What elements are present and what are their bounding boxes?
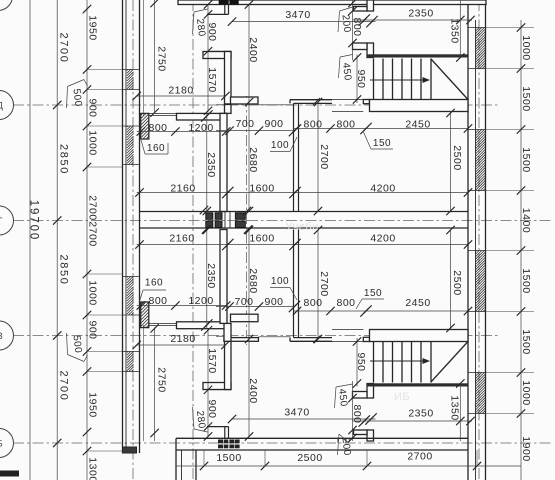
svg-text:950: 950 [355,69,367,88]
svg-text:2160: 2160 [170,183,195,195]
svg-text:В: В [0,331,3,341]
svg-text:1000: 1000 [86,130,98,155]
svg-text:1500: 1500 [520,329,532,354]
svg-text:1500: 1500 [520,86,532,111]
svg-text:2850: 2850 [58,144,70,175]
mirror thin line under vent wall [216,335,231,337]
wall B thin partition x293.5-298.5 [293,103,295,211]
svg-text:900: 900 [86,98,98,117]
left wall window hatch W2m [127,277,134,316]
left wall window hatch W1 [127,70,134,90]
central piers group1 2x2 [206,213,213,220]
svg-text:900: 900 [206,399,218,418]
dim 2400/2680 bottom x=249 [248,230,250,437]
svg-text:ИБ: ИБ [394,391,410,403]
svg-text:1000: 1000 [520,380,532,405]
witness x=143 top [142,0,144,116]
svg-text:2700: 2700 [318,144,330,169]
svg-text:Г: Г [0,216,3,226]
svg-text:3470: 3470 [284,407,309,419]
dim 900/1570 bottom x=208 [207,329,209,437]
svg-text:1500: 1500 [216,452,241,464]
dim 2350 landing y=20 [353,19,473,21]
svg-text:900: 900 [264,296,283,308]
svg-text:160: 160 [145,278,163,289]
svg-text:160: 160 [147,143,165,154]
svg-text:2350: 2350 [408,408,433,420]
svg-text:2750: 2750 [155,367,167,392]
bottom left corner wall going down [175,438,177,480]
right outer wall [467,0,469,480]
svg-text:1500: 1500 [520,147,532,172]
L wall x 203-231 y 51.5-58.5 [203,52,231,59]
central band walls y211.5-228 [140,211,469,213]
landing divider wall y54.5-57.5 [367,54,468,57]
svg-text:2180: 2180 [168,85,193,97]
dim 3470 top y=21.6 [232,21,376,23]
axis circle top partial [0,0,13,11]
axis col V4 x=479 in right wall [478,0,480,480]
top wall shaft blocks black [219,0,229,5]
svg-text:800: 800 [336,297,355,309]
dim 200/800 stair left bottom [352,381,354,441]
black bar bottom-left [0,471,19,477]
dim 2750 line x=154.6 top [154,0,156,114]
stair wall stub B [353,43,368,50]
mirror wall stub [141,302,149,328]
mirror landing divider [367,383,468,386]
mirror jog wall A to band [224,323,231,341]
band wall mid piece x230.5-258 [231,97,259,104]
mirror band thick segment x224-258.4 [224,338,258,342]
svg-text:1200: 1200 [188,295,213,307]
small pier 150 left of stair wall [363,100,369,104]
dim 1350 landing bottom [459,384,461,442]
mirror stair wall stub A [354,430,368,435]
wall A x220-227 [220,113,227,211]
svg-text:1570: 1570 [206,348,218,373]
svg-text:Д: Д [0,101,3,111]
door jamb line y=51.5 room1-room2 [209,51,231,53]
svg-text:2680: 2680 [247,268,259,293]
axis circle y=220.5 [0,206,14,235]
mirror wall x224.5 y337-389.5 [225,337,232,390]
niche line y=14.4 [207,13,229,15]
bottom wall shaft blocks [218,440,223,444]
stair left wall upper piece [367,0,374,11]
mirror stair treads [382,342,384,383]
dim 2500 bottom x=450.5 [450,230,452,330]
top chain y=131.5 left [137,131,227,133]
dim 2350 bottom x=206.8 [206,230,208,328]
svg-text:2400: 2400 [247,37,259,62]
dim line inner chain x=87 [86,0,88,480]
dim 2350 landing bottom y=421 [353,420,473,422]
dim 2180 bottom [137,344,226,346]
svg-text:280: 280 [194,410,207,429]
axis row y=335.5 [13,335,500,337]
svg-text:100: 100 [271,276,289,287]
svg-text:1600: 1600 [249,183,274,195]
band wall right part: wall B corner to stair [290,99,332,101]
left outer wall [122,0,124,453]
mirror: vent pipe bottom [224,427,226,439]
dim 2350 line x=206.8 [206,113,208,211]
bottom chain y=466 [176,465,521,467]
dim 280/900/1570 line x=208 top [207,5,209,113]
svg-text:150: 150 [373,138,391,149]
top chain y=128.5 right 800/800/2450 [294,128,468,130]
stair wall stub A [354,7,368,12]
dim 1350 landing x=460.3 [459,0,461,58]
svg-text:2700: 2700 [86,195,98,220]
svg-text:1400: 1400 [520,208,532,233]
svg-text:800: 800 [148,295,167,307]
wall B mirror [293,230,295,338]
dim 2750 bottom [154,328,156,442]
svg-text:1000: 1000 [86,280,98,305]
svg-text:800: 800 [148,122,167,134]
svg-text:450: 450 [340,62,353,81]
svg-text:19700: 19700 [28,200,40,241]
svg-text:700: 700 [235,118,254,130]
axis col V1 x=193 [192,0,194,480]
svg-text:900: 900 [86,320,98,339]
svg-text:700: 700 [234,296,253,308]
dim 200/800 stair left x=352.5 [352,0,354,60]
pier corner ticks [200,206,208,214]
thin line under vent wall [216,104,231,106]
mirror L wall [203,383,231,390]
svg-text:4200: 4200 [370,183,395,195]
axis col V0 x=133 in left wall [132,0,134,480]
svg-text:2450: 2450 [405,119,430,131]
svg-text:900: 900 [206,22,218,41]
svg-text:1350: 1350 [448,395,460,420]
stair treads [382,59,384,100]
svg-text:2160: 2160 [169,233,194,245]
mirror door jamb [209,389,231,391]
left wall window hatch W2 [127,126,134,165]
top chain y=130 mid 700/800 [216,130,294,132]
svg-text:800: 800 [303,119,322,131]
axis row center y=220.5 [13,220,553,222]
svg-text:200: 200 [340,14,353,33]
svg-text:2700: 2700 [58,33,70,64]
dim line outer chain x=57.2 [56,0,58,480]
svg-text:1950: 1950 [86,392,98,417]
axis circle y=335.5 [0,321,14,350]
svg-text:1350: 1350 [448,18,460,43]
svg-text:2850: 2850 [58,255,70,286]
svg-text:2500: 2500 [297,452,322,464]
mirror stair wall stub B [353,392,368,399]
svg-text:1200: 1200 [188,122,213,134]
svg-text:2180: 2180 [170,333,195,345]
svg-text:1500: 1500 [520,268,532,293]
door 800 opening lines [332,99,363,101]
bottom chain mid y=305 [216,306,294,308]
svg-text:2350: 2350 [205,152,217,177]
room dims y=192.5 [137,192,468,194]
witness lines left [87,69,123,71]
dim 2700 line x=318 top [317,102,319,211]
band wall left part with door opening [140,112,177,114]
svg-text:Б: Б [0,439,3,449]
mirror band wall B corner [290,340,332,342]
svg-text:1600: 1600 [249,233,274,245]
wall stub below band x140.7-148.8 [141,113,149,139]
svg-text:800: 800 [336,119,355,131]
mirror small pier 150 [363,337,369,341]
jog connecting vent wall to wall A [225,104,232,113]
svg-text:150: 150 [364,288,382,299]
right wall window hatches [476,28,486,69]
svg-text:2350: 2350 [408,8,433,20]
mirror stair diagonal [431,342,468,382]
axis col V2 x=246.5 [246,96,248,345]
svg-text:100: 100 [271,140,289,151]
svg-text:900: 900 [264,118,283,130]
svg-text:2500: 2500 [451,145,463,170]
svg-text:2680: 2680 [247,147,259,172]
dim 450/950 stair bottom [356,338,358,387]
room dims bottom y=244.5 [137,244,468,246]
witness x=143 bottom [142,325,144,441]
svg-text:3470: 3470 [285,9,310,21]
svg-text:2700: 2700 [58,371,70,402]
svg-text:1300: 1300 [86,457,98,480]
svg-text:2700: 2700 [407,451,432,463]
dim 2500 line x=450.5 top [450,111,452,211]
svg-text:2400: 2400 [247,378,259,403]
mirror band wall left part [140,323,177,325]
svg-text:280: 280 [194,18,207,37]
svg-text:2500: 2500 [451,270,463,295]
wall x 224.5-231 y 51.5-104 [225,52,232,105]
stair arrow line [370,79,428,81]
dim line 19700 x=30 [29,0,31,480]
dim 2400/2680 line x=249 top [248,5,250,212]
svg-text:1900: 1900 [520,436,532,461]
left wall window hatch W1m [127,352,134,372]
top outer wall band [178,0,486,5]
svg-text:1000: 1000 [520,35,532,60]
svg-text:2700: 2700 [86,221,98,246]
mirror niche line [207,426,229,428]
dim 450/950 stair x=357 [356,55,358,104]
mirror stair arrow [370,360,428,362]
bottom chain right y=311 [294,310,468,312]
stair left wall lower piece with corner [367,43,374,58]
svg-text:500: 500 [71,335,84,354]
bottom wall jog 200 [337,438,339,443]
bottom wall band y438.3-450 [176,437,468,439]
svg-text:2450: 2450 [405,297,430,309]
vent pipe below top wall [224,5,226,15]
stair diagonal [431,59,468,99]
svg-text:1950: 1950 [86,15,98,40]
mirror door 800 lines [332,329,363,331]
svg-text:Учебн: Учебн [285,221,319,233]
dim 2180 top y=93.6 [137,95,226,97]
svg-text:2700: 2700 [318,271,330,296]
wall A lines crossing band [224,212,226,229]
dim 2700 bottom x=318 [317,230,319,339]
svg-text:450: 450 [336,388,349,407]
svg-text:500: 500 [71,88,84,107]
central piers group2 1x2 [235,213,245,220]
wall A mirror [220,230,227,324]
dim 3470 bottom y=419 [232,418,376,420]
stair door jambs 800 [367,10,374,12]
mirror stair left wall pieces [367,430,374,441]
svg-text:4200: 4200 [370,233,395,245]
axis row B y=105 [13,104,500,106]
mirror band under stair [370,330,469,342]
left wall bottom cap [123,447,137,453]
band wall under stair x369.5-468 [370,100,469,112]
axis circle y=443 [0,429,14,458]
svg-text:2750: 2750 [155,46,167,71]
mirror thin door line 258-290 [258,336,290,338]
dim line right chain x=521 [520,20,522,480]
svg-text:2350: 2350 [205,263,217,288]
svg-text:1570: 1570 [206,67,218,92]
axis row y=443 [13,442,553,444]
axis circle y=105 [0,91,14,120]
bottom chain left y=304 [137,305,227,307]
mirror band mid piece above band [231,314,259,322]
svg-text:950: 950 [355,352,367,371]
svg-text:800: 800 [303,297,322,309]
